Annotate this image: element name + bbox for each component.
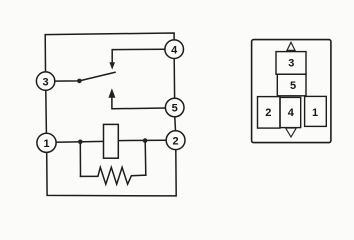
switch armature (common contact from pin 3) (55, 72, 115, 81)
orientation mark: up triangle (287, 42, 295, 50)
wire: NO contact down to pin 5 (112, 98, 165, 109)
svg-text:4: 4 (171, 44, 178, 56)
wire: coil to pin 2 (119, 139, 167, 141)
svg-text:3: 3 (288, 58, 294, 70)
relay base outline, bottom view (right diagram) (252, 40, 331, 143)
junction dot: coil/resistor right node (143, 138, 148, 143)
wire: pin 1 to coil (56, 140, 103, 143)
pin 4 terminal circle (165, 40, 184, 59)
NO contact arrow (points up) (108, 88, 115, 98)
pin 1 terminal circle (37, 133, 56, 152)
pin 3 terminal circle (36, 72, 54, 90)
orientation mark: down triangle (286, 128, 297, 137)
wire: pin 4 to NC contact (112, 49, 165, 62)
coil K1 (box) (104, 124, 119, 158)
pin 2 pad (bottom view) (258, 97, 281, 129)
pin 5 terminal circle (165, 98, 184, 117)
resistor branch left leg (79, 142, 81, 176)
wire: pin 5 to pin 2 (right rail) (174, 117, 177, 130)
wire: pin 3 up left rail, top rail, down to pin 4 (45, 33, 174, 72)
pin 3 pad (bottom view) (276, 52, 306, 75)
svg-text:1: 1 (312, 107, 318, 119)
wire: pin 3 to pin 1 (left rail) (45, 91, 48, 133)
svg-text:3: 3 (43, 76, 49, 88)
resistor R (zigzag) (81, 167, 146, 184)
svg-text:2: 2 (173, 135, 179, 147)
pin 2 terminal circle (166, 131, 185, 150)
wire: pin 4 to pin 5 (right rail) (173, 59, 175, 98)
svg-text:4: 4 (288, 107, 295, 119)
svg-text:5: 5 (172, 103, 178, 115)
pin 1 pad (bottom view) (305, 96, 327, 126)
pin 5 pad (bottom view) (277, 74, 306, 96)
svg-text:2: 2 (265, 107, 271, 119)
svg-text:5: 5 (290, 80, 296, 92)
NC contact arrow (points down toward armature) (109, 62, 115, 69)
junction dot: coil/resistor left node (78, 140, 83, 145)
svg-text:1: 1 (43, 138, 49, 150)
wire: pin 1 down, bottom rail, up to pin 2 (47, 150, 177, 196)
resistor branch right leg (144, 141, 147, 175)
pin 4 pad (bottom view) (280, 97, 301, 127)
switch pivot junction dot (77, 79, 82, 84)
